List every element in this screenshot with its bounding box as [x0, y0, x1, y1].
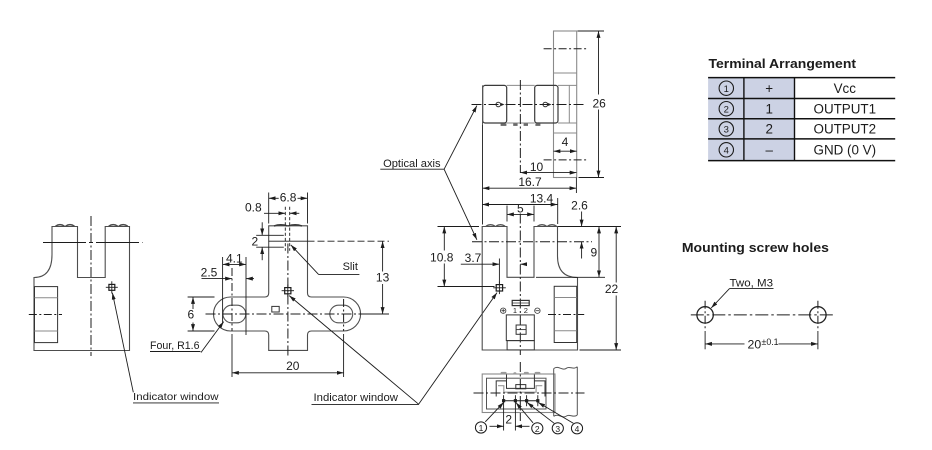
svg-text:Slit: Slit — [343, 261, 358, 273]
pin 2 — [514, 399, 517, 402]
circled terminal number 2 — [532, 423, 543, 434]
top view prong 1 — [483, 85, 507, 123]
svg-text:9: 9 — [590, 245, 597, 259]
top view vertical centerline — [519, 80, 521, 173]
terminal leader 3 — [527, 403, 554, 424]
svg-text:OUTPUT2: OUTPUT2 — [814, 122, 877, 137]
terminal leader 4 — [538, 403, 573, 424]
left ear vertical centerline — [231, 268, 233, 331]
dim 9 lower extension (slot bottom) — [536, 276, 605, 278]
mounting hole right — [810, 307, 826, 323]
dim 20 extension lines — [704, 331, 706, 349]
svg-text:Vcc: Vcc — [834, 81, 857, 96]
mounting hole left — [697, 307, 713, 323]
svg-text:3: 3 — [724, 125, 729, 136]
dim 20 — [232, 372, 344, 374]
bottom view key tab — [516, 385, 526, 389]
dim 2 between pins — [490, 425, 504, 427]
middle view indicator window symbol — [285, 288, 291, 294]
dim 6.8 extension lines — [268, 193, 270, 224]
table horizontal lines — [708, 77, 895, 79]
left view indicator window symbol — [109, 284, 115, 290]
dim 20 extension lines — [231, 334, 233, 377]
dim 22 lower extension (body bottom) — [580, 349, 622, 351]
svg-text:–: – — [765, 143, 773, 158]
svg-text:GND (0 V): GND (0 V) — [814, 143, 877, 158]
circled terminal number 4 — [571, 423, 582, 434]
dim 5 extension lines — [506, 206, 508, 222]
top view optical axis marker 1 — [496, 102, 501, 107]
svg-text:20: 20 — [286, 359, 300, 373]
dim 10.8 — [443, 227, 445, 287]
svg-text:5: 5 — [517, 202, 524, 216]
middle view left oblong hole Four R1.6 — [223, 305, 246, 323]
middle view vertical centerline — [287, 244, 289, 357]
dim 16.7 extension right — [575, 178, 577, 194]
left view indicator leader — [112, 293, 133, 393]
right view slot vertical centerline — [519, 214, 521, 356]
svg-text:4: 4 — [575, 424, 580, 434]
top view slot connecting edges — [507, 84, 535, 86]
table vertical lines — [743, 78, 745, 161]
dim 16.7 — [483, 187, 577, 189]
dim 20 +/-0.1 — [705, 343, 744, 345]
svg-text:1: 1 — [513, 306, 517, 315]
svg-text:OUTPUT1: OUTPUT1 — [814, 101, 877, 116]
top view mounting flange strip — [554, 31, 577, 178]
dim 3.7 extension (indicator vertical) — [498, 259, 500, 284]
dim 26 — [598, 31, 600, 178]
svg-text:Mounting screw holes: Mounting screw holes — [682, 240, 829, 255]
top view optical axis marker 2 — [543, 102, 548, 107]
dim 5 — [507, 213, 534, 215]
dim 10 — [520, 172, 576, 174]
dim 13 — [382, 241, 384, 314]
left view optical axis line — [43, 242, 143, 244]
dim 4 — [554, 150, 577, 152]
label Slit with leader — [291, 245, 319, 275]
left view terminal block — [35, 287, 58, 343]
dim 9 — [598, 227, 600, 278]
dim 22 — [615, 227, 617, 351]
dim 6 extension lines — [188, 296, 215, 298]
bottom view break-away mounting tab — [554, 367, 578, 417]
dim 6 — [192, 297, 194, 309]
svg-text:±0.1: ±0.1 — [762, 337, 779, 347]
svg-text:Indicator window: Indicator window — [314, 392, 399, 404]
left view vertical centerline — [90, 216, 92, 356]
dim 13.4 uses long left extension line x=482.5 — [482, 125, 484, 225]
right view connector block — [506, 315, 534, 341]
pin 1 — [502, 399, 505, 402]
middle view right oblong hole — [330, 305, 353, 323]
bottom view top edge pin shadows — [501, 372, 507, 374]
svg-text:10: 10 — [530, 160, 544, 174]
svg-text:Indicator window: Indicator window — [133, 391, 219, 403]
terminal leader 2 — [516, 403, 533, 423]
strip mounting hole centerlines — [544, 48, 587, 50]
dim 10.8 bottom extension (indicator height) — [438, 286, 495, 288]
dim 13 extension line at ear centerline — [365, 313, 389, 315]
svg-text:6: 6 — [187, 307, 194, 321]
top view pin stubs under body — [501, 123, 507, 126]
svg-text:26: 26 — [593, 97, 607, 111]
slit depth extension stubs — [256, 234, 284, 236]
right view prong top bumps — [486, 225, 557, 227]
dim 4.1 — [223, 263, 246, 265]
table circled 1 — [719, 81, 733, 95]
dim 13.4 — [482, 204, 557, 206]
pin 3 — [525, 399, 528, 402]
top view prong 2 — [535, 85, 558, 123]
svg-text:1: 1 — [765, 101, 772, 116]
bottom view inner rect — [487, 378, 547, 409]
dim 2 (slit depth) — [261, 222, 263, 235]
middle view small mold mark rectangle — [272, 306, 279, 312]
long left extension line from top view to front view — [482, 85, 484, 125]
svg-text:3: 3 — [555, 424, 560, 434]
svg-text:3.7: 3.7 — [465, 251, 482, 265]
right view top edge extension to right — [558, 226, 621, 228]
right view two-cell window — [512, 300, 529, 305]
svg-text:10.8: 10.8 — [430, 251, 454, 265]
left view body outline — [34, 227, 130, 351]
right view indicator leader to shared label — [419, 293, 497, 405]
svg-text:20: 20 — [748, 337, 762, 351]
dim 26 extension lines — [578, 30, 605, 32]
mounting hole vertical centerlines — [704, 301, 706, 329]
dim 13.4 extension right — [557, 198, 559, 224]
svg-text:13: 13 — [376, 271, 390, 285]
dim 10.8 top extension — [438, 226, 480, 228]
pin row line — [504, 400, 538, 402]
bottom view vertical centerline — [519, 362, 521, 421]
svg-text:13.4: 13.4 — [530, 191, 554, 205]
table circled 3 — [719, 122, 733, 136]
middle view indicator leader to shared label — [289, 296, 418, 405]
right view terminal block — [554, 286, 577, 342]
middle view horizontal centerline through ears — [206, 313, 373, 315]
circled terminal number 1 — [475, 422, 486, 433]
svg-text:2.5: 2.5 — [201, 266, 218, 280]
table circled 2 — [719, 102, 733, 116]
svg-text:2: 2 — [252, 235, 259, 249]
svg-text:2: 2 — [524, 306, 528, 315]
svg-text:6.8: 6.8 — [280, 191, 297, 205]
pin 4 — [536, 399, 539, 402]
middle view cap top bumps — [274, 225, 302, 226]
svg-text:Optical axis: Optical axis — [383, 158, 441, 170]
svg-text:2.6: 2.6 — [571, 198, 588, 212]
svg-text:2: 2 — [535, 424, 540, 434]
svg-text:4: 4 — [562, 135, 569, 149]
table circled 4 — [719, 143, 733, 157]
plus terminal symbol — [501, 308, 506, 313]
dim 2.6 — [581, 212, 583, 227]
svg-text:1: 1 — [724, 84, 729, 95]
right view indicator window symbol — [496, 285, 502, 291]
dim 6.8 — [269, 197, 279, 199]
bottom view horizontal centerline — [474, 392, 585, 394]
top view horizontal centerline — [472, 104, 587, 106]
right ear vertical centerline — [343, 299, 345, 331]
svg-text:2: 2 — [765, 122, 772, 137]
svg-text:2: 2 — [724, 104, 729, 115]
svg-text:Terminal Arrangement: Terminal Arrangement — [709, 56, 857, 71]
svg-text:16.7: 16.7 — [518, 175, 542, 189]
svg-text:2: 2 — [505, 413, 512, 427]
bottom view connector cavity — [496, 375, 545, 397]
left view terminal block centerline — [29, 314, 62, 316]
terminal leader 1 — [485, 402, 504, 422]
dim 4.1 extension lines — [222, 257, 224, 324]
svg-text:22: 22 — [605, 282, 619, 296]
left view prong top bumps — [56, 225, 128, 227]
svg-text:Four, R1.6: Four, R1.6 — [150, 340, 200, 352]
dim 3.7 — [461, 263, 500, 265]
bottom view outer rect — [482, 374, 555, 413]
middle view cap bottom line extended right (13 dim extension) — [269, 240, 308, 242]
svg-text:4: 4 — [724, 145, 729, 156]
svg-text:0.8: 0.8 — [245, 200, 262, 214]
middle view body outline — [214, 226, 361, 351]
right view body outline — [482, 227, 577, 351]
circled terminal number 3 — [552, 423, 563, 434]
svg-text:Two, M3: Two, M3 — [730, 278, 774, 290]
dim 2.5 — [202, 278, 233, 280]
table shading — [708, 78, 794, 161]
right view block centerline — [548, 314, 584, 316]
minus terminal symbol — [535, 308, 540, 313]
slit hidden lines (dashed) — [284, 207, 286, 251]
right view optical axis dashed line — [472, 241, 592, 243]
svg-text:+: + — [765, 81, 773, 96]
strip internal lines — [554, 72, 577, 74]
svg-text:4.1: 4.1 — [226, 251, 243, 265]
svg-text:1: 1 — [479, 423, 484, 433]
right view small square with cross — [516, 325, 526, 334]
mounting holes horizontal centerline — [691, 314, 833, 316]
